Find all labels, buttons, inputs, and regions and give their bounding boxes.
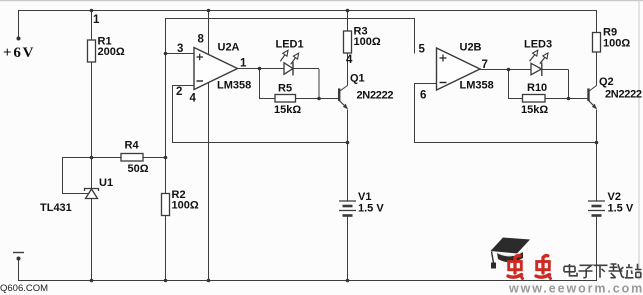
wire: Q1 emitter to feedback node bbox=[347, 110, 349, 143]
junction: U2B output T bbox=[507, 68, 511, 72]
svg-text:15kΩ: 15kΩ bbox=[521, 104, 548, 116]
wire: LED3 anode lead bbox=[508, 69, 531, 71]
junction: R5 right / Q1 base T bbox=[317, 97, 321, 101]
wire: R3 bottom to Q1 collector bbox=[347, 53, 349, 86]
op-amp U2B bbox=[437, 48, 481, 90]
faint page border top bbox=[0, 0, 643, 1]
svg-text:200Ω: 200Ω bbox=[98, 46, 125, 58]
junction: U2A output T bbox=[258, 67, 262, 71]
wire: LED1/R5 right node drop bbox=[318, 69, 320, 98]
svg-text:www.eeworm.com: www.eeworm.com bbox=[508, 282, 643, 295]
resistor R2 bbox=[162, 194, 170, 216]
junction: TL431 cathode node bbox=[90, 156, 94, 160]
wire: U2A pin4 to ground rail bbox=[208, 83, 210, 281]
wire: LED3/R10 right node drop bbox=[568, 70, 570, 99]
wire: R9 top from rail corner bbox=[596, 10, 598, 33]
svg-text:V2: V2 bbox=[608, 191, 621, 203]
wire: U2B pin5 drop bbox=[414, 18, 416, 54]
wire: reference top run to U2B pin5 bbox=[165, 18, 414, 20]
svg-text:V1: V1 bbox=[358, 191, 371, 203]
svg-text:100Ω: 100Ω bbox=[354, 36, 381, 48]
wire: U2B pin6 lead bbox=[414, 83, 437, 85]
shunt reference U1 TL431 bbox=[85, 189, 99, 199]
wire: R9 bottom to Q2 collector bbox=[596, 52, 598, 86]
junction: R3 on rail bbox=[346, 9, 350, 13]
wire: R3 top from rail bbox=[347, 10, 349, 31]
svg-text:100Ω: 100Ω bbox=[603, 38, 630, 50]
svg-text:TL431: TL431 bbox=[40, 202, 72, 214]
wire: R10 left node drop bbox=[508, 70, 510, 99]
wire: R5 right lead bbox=[296, 98, 320, 100]
wire: U2B output lead bbox=[480, 69, 509, 71]
svg-text:Q2: Q2 bbox=[599, 76, 614, 88]
resistor R5 bbox=[275, 95, 296, 103]
wire: LED1 cathode lead bbox=[293, 68, 319, 70]
svg-text:U2B: U2B bbox=[460, 42, 482, 54]
resistor R10 bbox=[523, 95, 546, 103]
svg-text:4: 4 bbox=[346, 54, 353, 66]
LED3 emission arrows bbox=[530, 55, 535, 62]
junction: R10 right / Q2 base T bbox=[567, 97, 571, 101]
LED1 emission arrows bbox=[280, 55, 285, 62]
svg-text:1.5 V: 1.5 V bbox=[358, 203, 384, 215]
watermark 虫 character 2 bbox=[536, 256, 551, 279]
wire: Q2 emitter to feedback node bbox=[596, 110, 598, 143]
svg-text:R4: R4 bbox=[125, 140, 140, 152]
svg-text:2N2222: 2N2222 bbox=[605, 89, 642, 101]
ground terminal tick bbox=[13, 252, 24, 254]
junction: +6V terminal dot bbox=[17, 37, 21, 41]
wire: ground terminal drop bbox=[18, 258, 20, 280]
svg-text:15kΩ: 15kΩ bbox=[274, 104, 301, 116]
wire: U2A feedback left edge bbox=[172, 85, 174, 143]
svg-text:7: 7 bbox=[482, 59, 488, 71]
junction: ground terminal dot bbox=[17, 257, 21, 261]
junction: U2A pin4 on ground rail bbox=[207, 279, 211, 283]
svg-text:1: 1 bbox=[240, 58, 247, 70]
junction: R4/R2/reference column bbox=[164, 156, 168, 160]
wire: R2 top lead bbox=[165, 157, 167, 194]
svg-text:U1: U1 bbox=[99, 177, 113, 189]
char 子 bbox=[579, 265, 593, 277]
svg-text:1.5 V: 1.5 V bbox=[608, 203, 634, 215]
wire: +6V terminal drop bbox=[18, 10, 20, 38]
svg-text:1: 1 bbox=[93, 14, 100, 26]
wire: LED1 anode lead bbox=[259, 68, 284, 70]
watermark 电子下载站 text bbox=[564, 264, 642, 278]
battery V1 bbox=[339, 201, 356, 216]
wire: R10 right lead bbox=[545, 98, 569, 100]
wire: U2A output lead bbox=[237, 68, 259, 70]
char 下 bbox=[594, 265, 608, 278]
svg-text:3: 3 bbox=[177, 43, 183, 55]
svg-text:4: 4 bbox=[190, 93, 197, 105]
char 站 bbox=[625, 264, 642, 278]
svg-text:+6V: +6V bbox=[3, 45, 35, 61]
svg-text:LM358: LM358 bbox=[217, 80, 251, 92]
wire: Q2 emitter node to V2 bbox=[596, 143, 598, 202]
watermark graduation cap logo bbox=[491, 238, 531, 269]
wire: Q2 base lead bbox=[569, 98, 589, 100]
svg-text:100Ω: 100Ω bbox=[172, 200, 199, 212]
wire: U2A feedback bottom to Q1 emitter bbox=[172, 142, 348, 144]
watermark 虫 character 1 bbox=[508, 256, 523, 279]
junction: V1 on ground rail bbox=[346, 279, 350, 283]
char 载 bbox=[609, 264, 625, 278]
faint page border right bbox=[639, 0, 640, 280]
svg-text:Q606.COM: Q606.COM bbox=[0, 283, 48, 294]
svg-text:2N2222: 2N2222 bbox=[357, 90, 394, 102]
wire: reference node column to U2A pin3 and top run bbox=[165, 18, 167, 158]
svg-text:50Ω: 50Ω bbox=[128, 163, 149, 175]
op-amp U2A bbox=[194, 48, 238, 90]
transistor Q2 bbox=[589, 86, 597, 110]
svg-text:2: 2 bbox=[176, 86, 182, 98]
wire: TL431 anode to ground rail bbox=[91, 198, 93, 280]
wire: +6V top rail bbox=[18, 10, 597, 12]
resistor R4 bbox=[121, 154, 143, 162]
svg-text:5: 5 bbox=[419, 44, 426, 56]
transistor Q1 bbox=[339, 86, 348, 110]
svg-text:8: 8 bbox=[198, 34, 205, 46]
wire: Q1 base lead bbox=[319, 98, 339, 100]
wire: R5 left lead bbox=[259, 98, 275, 100]
wire: R5 left node drop bbox=[259, 69, 261, 99]
svg-text:R10: R10 bbox=[527, 82, 547, 94]
wire: LED3 cathode lead bbox=[542, 69, 569, 71]
wire: U2B feedback left edge bbox=[414, 84, 416, 143]
svg-text:6: 6 bbox=[420, 90, 426, 102]
battery V2 bbox=[588, 201, 605, 216]
junction: reference node at pin3 bbox=[164, 52, 168, 56]
wire: reference row R4 left segment bbox=[62, 157, 121, 159]
junction: U2A pin8 on rail bbox=[207, 9, 211, 13]
svg-text:LED3: LED3 bbox=[524, 39, 552, 51]
wire: Q1 emitter node to V1 bbox=[347, 143, 349, 202]
junction: R2 on ground rail bbox=[164, 279, 168, 283]
wire: ground bottom rail bbox=[18, 280, 597, 282]
junction: Q1 emitter / feedback bbox=[346, 141, 350, 145]
wire: U2A pin8 from rail bbox=[208, 10, 210, 54]
wire: R2 bottom to ground rail bbox=[165, 216, 167, 281]
svg-text:LM358: LM358 bbox=[460, 80, 494, 92]
resistor R1 bbox=[88, 40, 96, 62]
junction: node 1 on rail bbox=[90, 9, 94, 13]
wire: U2B feedback bottom to Q2 emitter bbox=[414, 142, 597, 144]
junction: Q2 emitter / feedback bbox=[595, 141, 599, 145]
wire: R1 bottom to TL431 cathode bbox=[91, 62, 93, 188]
LED D3 symbol bbox=[530, 50, 549, 76]
LED D1 symbol bbox=[280, 50, 298, 75]
wire: R10 left lead bbox=[508, 98, 523, 100]
wire: U2A pin2 lead bbox=[172, 85, 194, 87]
wire: V2 minus to ground rail bbox=[596, 216, 598, 281]
svg-text:LED1: LED1 bbox=[276, 39, 304, 51]
resistor R3 bbox=[344, 31, 352, 53]
svg-text:U2A: U2A bbox=[218, 42, 240, 54]
wire: TL431 ref bend bbox=[62, 157, 89, 194]
char 电 bbox=[564, 264, 577, 276]
svg-text:Q1: Q1 bbox=[350, 73, 365, 85]
wire: V1 minus to ground rail bbox=[347, 216, 349, 281]
wire: U2A pin3 lead bbox=[165, 53, 194, 55]
wire: node1/R1 column top bbox=[91, 10, 93, 40]
junction: TL431 anode on ground rail bbox=[90, 279, 94, 283]
wire: R4 right segment to R2 node bbox=[143, 157, 165, 159]
svg-text:R5: R5 bbox=[278, 83, 292, 95]
resistor R9 bbox=[593, 33, 601, 53]
